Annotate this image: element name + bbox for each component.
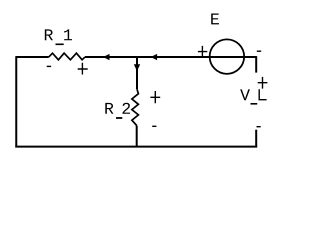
polarity plus left of source E (198, 46, 207, 58)
wire: R_2 bottom lead (136, 126, 138, 147)
wire: left vertical branch (15, 56, 17, 147)
voltage source E circle (210, 39, 245, 74)
wire: R_2 top lead from junction (136, 57, 138, 89)
current arrow on R_2 branch (pointing down) (134, 64, 140, 71)
polarity plus at V_L top terminal (258, 77, 268, 89)
wire: right bottom stub from open terminal to bottom wire (255, 130, 257, 147)
polarity minus right of R_2 bottom (152, 125, 156, 127)
label R_2 underscore (116, 117, 122, 119)
wire: top segment from R_1 through junction and source to right corner (85, 56, 256, 58)
label R_1 underscore (56, 44, 64, 46)
current arrow on top wire left of junction (pointing left) (103, 54, 109, 60)
label V_L glyph V (240, 89, 250, 100)
polarity minus right of source E (257, 50, 261, 52)
polarity plus right of R_1 (78, 63, 88, 75)
label R_2 glyph 2 (122, 103, 130, 114)
current arrow on top wire right of junction (pointing left) (151, 54, 157, 60)
wire: right top stub down to open terminal (255, 56, 257, 73)
polarity plus right of R_2 top (150, 91, 160, 103)
label R_1 glyph 1 (64, 29, 72, 40)
label R_1 glyph R (45, 29, 53, 40)
resistor R_2 zigzag (132, 89, 139, 125)
wire: bottom horizontal (15, 146, 257, 148)
label R_2 glyph R (105, 103, 113, 114)
label V_L glyph L (259, 89, 266, 99)
label E glyph E (211, 14, 219, 25)
label V_L underscore (251, 103, 258, 105)
polarity minus at V_L bottom terminal (257, 126, 261, 128)
resistor R_1 zigzag (49, 53, 85, 60)
polarity minus left of R_1 (47, 65, 51, 67)
wire: top left segment to R_1 (16, 56, 48, 58)
